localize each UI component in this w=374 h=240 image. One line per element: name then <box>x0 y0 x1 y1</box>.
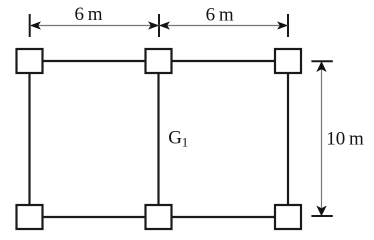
dimension line 10m <box>321 62 323 215</box>
dimension tick right <box>287 14 289 37</box>
label 6 m (left span) <box>75 4 103 25</box>
column top-left <box>17 49 43 73</box>
beam top (left span) <box>30 60 159 62</box>
dimension line 6m left span <box>30 25 159 27</box>
label G1 <box>168 128 188 150</box>
arrowhead bottom pointing down <box>316 206 326 217</box>
svg-text:6 m: 6 m <box>75 4 103 25</box>
label 10 m <box>326 128 364 149</box>
beam bottom (left span) <box>30 216 159 218</box>
girder right <box>287 61 289 217</box>
svg-text:1: 1 <box>182 135 189 150</box>
svg-text:6 m: 6 m <box>206 4 234 25</box>
column top-right <box>275 49 301 73</box>
column bottom-middle <box>146 205 172 229</box>
beam bottom (right span) <box>159 216 289 218</box>
arrowhead middle pointing left <box>159 21 170 29</box>
column top-middle <box>146 49 172 73</box>
arrowhead left end pointing left <box>30 21 41 29</box>
dimension tick left <box>29 14 31 37</box>
svg-text:10 m: 10 m <box>326 128 364 149</box>
dimension tick bottom-right <box>311 215 332 217</box>
girder left <box>28 61 30 217</box>
column bottom-left <box>17 205 43 229</box>
beam top (right span) <box>159 60 289 62</box>
girder middle G1 <box>157 61 159 217</box>
arrowhead top pointing up <box>316 61 326 72</box>
label 6 m (right span) <box>206 4 234 25</box>
dimension line 6m right span <box>159 25 288 27</box>
column bottom-right <box>275 205 301 229</box>
dimension tick top-right <box>311 60 332 62</box>
svg-text:G: G <box>168 128 182 149</box>
arrowhead middle pointing right <box>148 21 159 29</box>
arrowhead right end pointing right <box>277 21 288 29</box>
dimension tick middle <box>158 14 160 37</box>
